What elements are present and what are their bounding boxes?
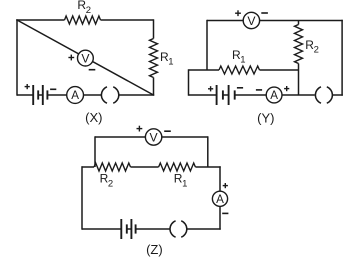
plug key (open) right contact (X) xyxy=(113,87,119,103)
svg-text:V: V xyxy=(81,51,90,65)
wire Y right side xyxy=(341,20,343,96)
svg-text:2: 2 xyxy=(314,45,319,56)
wire Z battery to plug key xyxy=(136,228,170,230)
wire Y ammeter to plug key xyxy=(282,94,315,96)
voltmeter V (X) xyxy=(78,50,94,66)
wire Y: R2 bottom to bottom row xyxy=(298,64,300,96)
wire Y bottom: corner to battery xyxy=(189,94,217,96)
polarity + of battery (X) xyxy=(25,84,30,89)
label R1 (Z) xyxy=(174,172,188,190)
wire X bottom: corner to battery xyxy=(17,94,33,96)
wire Z voltmeter drop right xyxy=(207,136,209,167)
svg-text:1: 1 xyxy=(168,57,173,68)
polarity - of voltmeter (X) xyxy=(89,69,96,71)
plug key (open) left contact (X) xyxy=(101,87,107,103)
svg-text:1: 1 xyxy=(182,178,187,189)
resistor R2 (X) xyxy=(65,16,101,24)
svg-text:1: 1 xyxy=(240,55,245,66)
svg-text:2: 2 xyxy=(108,178,113,189)
svg-text:V: V xyxy=(247,14,256,28)
resistor R1 (X) xyxy=(150,39,158,78)
wire X plug key to corner xyxy=(119,94,154,96)
polarity + of voltmeter (Z) xyxy=(137,126,143,132)
label R2 (X) xyxy=(77,0,91,16)
plug key (open) left contact (Y) xyxy=(315,87,321,103)
label R1 (X) xyxy=(160,50,174,68)
wire X battery to ammeter xyxy=(47,94,66,96)
label R2 (Z) xyxy=(100,172,114,190)
svg-text:(X): (X) xyxy=(85,110,102,125)
wire Z right side upper xyxy=(219,166,221,191)
wire Z left side xyxy=(81,166,83,229)
wire Z middle row left xyxy=(82,166,95,168)
label R1 (Y) xyxy=(232,48,246,66)
svg-text:V: V xyxy=(150,130,159,144)
battery cells (Y) xyxy=(217,85,235,105)
wire Z voltmeter row left xyxy=(95,136,145,138)
wire Y left side lower xyxy=(188,69,190,95)
ammeter A (Z) xyxy=(212,191,227,206)
battery cells (X) xyxy=(33,85,47,105)
polarity + of voltmeter (X) xyxy=(68,55,74,61)
svg-text:(Y): (Y) xyxy=(257,110,274,125)
plug key (open) right contact (Y) xyxy=(327,87,333,103)
polarity - of ammeter (Z) xyxy=(222,212,228,214)
wire Y battery to ammeter xyxy=(235,94,267,96)
wire Y left side upper xyxy=(206,20,208,70)
resistor R1 (Z) xyxy=(159,163,196,171)
wire Z plug key to corner xyxy=(187,228,221,230)
resistor R2 (Y) xyxy=(295,25,303,64)
polarity + of battery (Y) xyxy=(208,86,213,91)
wire Z between resistors xyxy=(131,166,159,168)
wire Z right side lower xyxy=(219,206,221,229)
polarity - of voltmeter (Z) xyxy=(164,130,171,132)
ammeter A (Y) xyxy=(266,87,282,103)
plug key (open) right contact (Z) xyxy=(181,221,187,237)
wire X right side lower xyxy=(153,78,155,96)
svg-text:2: 2 xyxy=(86,5,91,16)
voltmeter V (Y) xyxy=(243,12,259,28)
svg-text:A: A xyxy=(216,193,224,206)
voltmeter V (Z) xyxy=(145,129,161,145)
wire Y middle row left xyxy=(189,69,220,71)
wire Z bottom: corner to battery xyxy=(82,228,121,230)
label R2 (Y) xyxy=(305,38,319,56)
polarity - of voltmeter (Y) xyxy=(261,12,268,14)
wire Y middle row right xyxy=(260,69,299,71)
battery cells (Z) xyxy=(121,219,135,239)
polarity + of ammeter (Z) xyxy=(223,183,228,188)
polarity + of ammeter (Y) xyxy=(284,86,289,91)
resistor R2 (Z) xyxy=(94,163,131,171)
polarity - of battery (X) xyxy=(50,88,56,90)
wire X ammeter to plug key xyxy=(84,94,102,96)
wire X left side xyxy=(16,19,18,95)
wire X diagonal (voltmeter branch) xyxy=(17,20,154,95)
polarity + of voltmeter (Y) xyxy=(235,10,241,16)
wire X top-left segment xyxy=(16,19,64,21)
node: R2 top junction stub (Y) xyxy=(298,21,300,25)
wire Y plug key to corner xyxy=(332,94,342,96)
svg-text:A: A xyxy=(71,89,79,102)
wire X top-right segment xyxy=(101,19,154,21)
svg-text:A: A xyxy=(270,89,278,102)
wire Y top-right segment xyxy=(260,20,343,22)
svg-text:(Z): (Z) xyxy=(146,242,163,257)
wire Z voltmeter drop left xyxy=(94,136,96,167)
wire Z voltmeter row right xyxy=(162,136,208,138)
ammeter A (X) xyxy=(67,87,84,104)
wire Z middle row right xyxy=(195,166,220,168)
polarity - of battery (Y) xyxy=(237,87,243,89)
plug key (open) left contact (Z) xyxy=(170,221,176,237)
wire Y top-left segment xyxy=(207,20,243,22)
polarity - of ammeter (Y) xyxy=(256,89,262,91)
resistor R1 (Y) xyxy=(219,66,260,74)
wire X right side upper xyxy=(153,19,155,38)
